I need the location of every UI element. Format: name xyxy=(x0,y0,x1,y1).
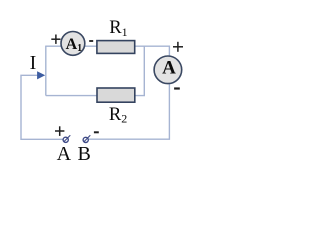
wire: R1 to top-right corner and down into ammeter A xyxy=(135,46,170,56)
wire: left branch from terminal A up to arrow level xyxy=(21,75,63,139)
wire: R2 right end up to top wire xyxy=(135,46,145,96)
wire: ammeter A bottom down and left to terminal B xyxy=(88,83,169,139)
svg-text:B: B xyxy=(78,143,91,164)
svg-text:I: I xyxy=(30,52,37,74)
minus of A1 xyxy=(89,40,93,42)
minus of terminal B xyxy=(94,131,99,133)
plus of A xyxy=(173,42,183,52)
resistor R2 xyxy=(97,88,135,102)
svg-text:A: A xyxy=(57,143,72,164)
terminal A xyxy=(63,135,70,142)
minus of A xyxy=(174,87,180,89)
plus of terminal A xyxy=(55,126,64,136)
terminal B xyxy=(83,135,90,142)
svg-text:A: A xyxy=(162,57,176,78)
wire: junction vertical between A1 branch and R2 branch xyxy=(45,46,47,95)
wire: R2 branch horizontal xyxy=(46,95,97,97)
ammeter A xyxy=(154,56,182,84)
wire: to ammeter A1 xyxy=(45,45,62,47)
ammeter A1 xyxy=(61,32,85,56)
resistor R1 xyxy=(97,41,135,54)
wire: A1 to R1 xyxy=(85,45,98,47)
current arrow I head xyxy=(37,71,45,79)
plus of A1 xyxy=(51,35,60,44)
